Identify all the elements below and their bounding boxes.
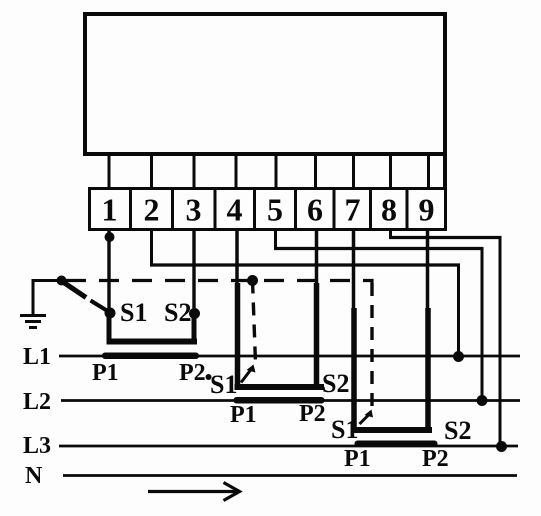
svg-text:7: 7 (345, 192, 361, 228)
stub wire box right edge to strip (443, 155, 447, 188)
wire terminal5 voltage tap down (274, 230, 277, 249)
wire terminal6 to CT2 S2 (315, 230, 319, 285)
CT1 S1 terminal dot (105, 308, 116, 319)
CT3 primary bar P1-P2 (355, 441, 438, 448)
svg-text:S2: S2 (444, 416, 471, 445)
svg-text:P1: P1 (92, 360, 119, 386)
dashed drop to CT3 S1 (370, 283, 373, 411)
ground symbol (20, 279, 46, 328)
stub wire box to terminal 7 (352, 155, 355, 188)
CT2 secondary winding (thick U) (235, 384, 325, 390)
wire terminal2 voltage tap horizontal (150, 263, 460, 266)
CT1 S2 terminal dot (189, 308, 200, 319)
meter box U1 (85, 14, 445, 154)
junction dot on L2 (477, 395, 488, 406)
svg-text:4: 4 (227, 192, 243, 228)
line N (63, 474, 517, 477)
CT1 secondary winding (thick U) (107, 312, 198, 342)
svg-text:P2: P2 (179, 360, 206, 386)
svg-text:S1: S1 (120, 298, 147, 327)
svg-text:L1: L1 (23, 344, 51, 370)
wire terminal1 to CT1 S1 (107, 230, 110, 316)
wire terminal8 voltage tap down (389, 230, 392, 238)
dashed ground bus horizontal (66, 281, 372, 284)
stub wire box to terminal 9 (427, 155, 430, 188)
line L3 (59, 445, 518, 448)
junction dot node G (57, 276, 67, 286)
wire terminal7 to CT3 S1 (352, 230, 356, 310)
stub wire box to terminal 1 (108, 155, 111, 188)
svg-text:N: N (25, 463, 43, 489)
terminal divider 3|4 (214, 187, 217, 230)
wire ground to node G (32, 279, 67, 282)
wire voltage tap down to L2 (481, 247, 484, 401)
ground link blade to CT1 S1 (arrow) (63, 282, 110, 313)
wire voltage tap down to L1 (457, 264, 460, 357)
svg-text:L3: L3 (23, 433, 51, 459)
svg-text:1: 1 (102, 192, 118, 228)
wire voltage tap down to L3 (499, 236, 502, 446)
terminal divider 5|6 (294, 187, 297, 230)
ink speckle after CT1 P2 (206, 374, 212, 380)
stub wire box to terminal 6 (314, 155, 317, 188)
terminal divider 1|2 (129, 187, 132, 230)
wire terminal2 voltage tap down (150, 230, 153, 265)
svg-text:3: 3 (186, 192, 202, 228)
junction dot on dashed bus (247, 275, 258, 286)
junction dot on L3 (496, 441, 507, 452)
svg-text:P2: P2 (422, 446, 449, 472)
link arrow into CT3 S1 (360, 410, 374, 425)
wire terminal8 voltage tap horizontal (389, 236, 502, 239)
svg-text:P2: P2 (299, 401, 326, 427)
svg-text:L2: L2 (23, 389, 51, 415)
energy flow arrow (148, 483, 240, 501)
stub wire box to terminal 8 (389, 155, 392, 188)
stub wire box to terminal 3 (193, 155, 196, 188)
terminal divider 4|5 (253, 187, 256, 230)
link arrow into CT2 S1 (241, 365, 256, 383)
wire terminal5 voltage tap horizontal (274, 247, 484, 250)
junction dot below terminal 1 (105, 232, 115, 242)
svg-text:5: 5 (267, 192, 283, 228)
svg-text:P1: P1 (344, 446, 371, 472)
junction dot on L1 (453, 351, 464, 362)
CT3 secondary winding (thick U) (351, 427, 432, 433)
svg-text:8: 8 (381, 192, 397, 228)
svg-text:9: 9 (419, 192, 435, 228)
line L2 (61, 399, 520, 402)
terminal divider 2|3 (171, 187, 174, 230)
terminal divider 6|7 (333, 187, 336, 230)
terminal divider 8|9 (406, 187, 409, 230)
svg-text:S2: S2 (164, 298, 191, 327)
terminal divider 7|8 (369, 187, 372, 230)
stub wire box to terminal 2 (150, 155, 153, 188)
svg-text:S1: S1 (210, 370, 237, 399)
CT1 primary bar P1-P2 (102, 353, 199, 360)
stub wire box to terminal 5 (275, 155, 278, 188)
svg-text:P1: P1 (230, 402, 257, 428)
dashed drop to CT2 S1 (253, 281, 256, 364)
wire terminal3 to CT1 S2 (192, 230, 195, 316)
svg-text:6: 6 (307, 192, 323, 228)
terminal strip (90, 189, 446, 230)
CT2 primary bar P1-P2 (234, 397, 325, 404)
svg-text:S2: S2 (322, 369, 349, 398)
stub wire box to terminal 4 (235, 155, 238, 188)
wire terminal4 to CT2 S1 (235, 230, 239, 285)
svg-text:S1: S1 (331, 415, 358, 444)
svg-text:2: 2 (144, 192, 160, 228)
line L1 (59, 355, 520, 358)
wire terminal9 to CT3 S2 (426, 230, 430, 310)
